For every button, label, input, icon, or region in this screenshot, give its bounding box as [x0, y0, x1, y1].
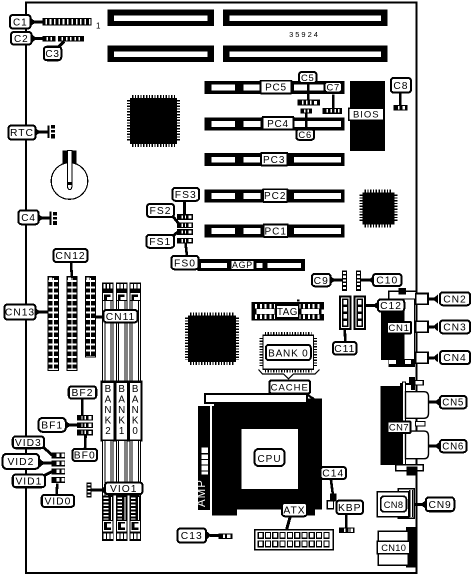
svg-text:N: N — [104, 405, 111, 416]
label VID1 — [13, 475, 45, 488]
wire C11 stem — [343, 330, 346, 343]
jumper block VID0-VID3 — [51, 452, 64, 483]
wire CN13 arrow — [35, 308, 41, 317]
label C7 — [325, 81, 342, 92]
component VIO1 header — [86, 482, 91, 497]
svg-text:VID3: VID3 — [15, 438, 42, 449]
svg-text:N: N — [132, 405, 139, 416]
chip U3 south bridge (QFP) — [186, 314, 237, 364]
svg-text:K: K — [105, 415, 112, 426]
PCI slot PC1 — [205, 225, 345, 238]
label CN13 — [5, 305, 36, 320]
svg-text:C6: C6 — [298, 129, 312, 140]
PCI slot PC4 — [205, 118, 345, 131]
wire C13 arrow — [206, 531, 212, 540]
connector CN7 block — [381, 377, 424, 471]
label VID0 — [42, 495, 74, 508]
label CN3 — [440, 320, 470, 333]
KBP fuse — [339, 528, 355, 534]
connector CN12 bar header strip — [67, 276, 78, 371]
label C14 — [321, 467, 347, 480]
svg-text:VID0: VID0 — [44, 497, 71, 508]
AGP slot — [198, 259, 306, 271]
svg-text:FS3: FS3 — [175, 190, 197, 201]
label PC1 — [264, 224, 289, 237]
BIOS chip — [349, 81, 385, 151]
svg-text:CN4: CN4 — [443, 353, 467, 364]
chip U2 (QFP) — [361, 191, 396, 226]
edge connector CN4 port — [416, 352, 428, 363]
PCI slot PC5 — [205, 81, 345, 94]
svg-text:C3: C3 — [45, 49, 59, 60]
svg-text:C9: C9 — [314, 276, 329, 287]
CN7 bottom bracket — [396, 465, 424, 476]
wire CN12 stem — [70, 262, 73, 277]
PCI slot PC3 — [205, 153, 345, 166]
header C10 bar — [356, 271, 361, 292]
label C3 — [44, 47, 62, 61]
svg-text:CACHE: CACHE — [271, 382, 309, 393]
svg-text:BF2: BF2 — [72, 388, 94, 399]
label C11 — [333, 342, 357, 355]
label FS1 — [147, 235, 175, 248]
wire C10 arrow — [369, 276, 375, 285]
svg-text:CN10: CN10 — [381, 543, 406, 553]
wire C9 arrow — [330, 276, 336, 285]
wire FS1 pointer — [172, 232, 179, 237]
label VID2 — [3, 454, 40, 469]
label BF0 — [73, 449, 98, 462]
label KBP — [337, 501, 364, 515]
label CN9 — [426, 498, 455, 512]
jumper block BF0-BF2 — [77, 415, 93, 436]
svg-text:35924: 35924 — [289, 30, 320, 39]
svg-text:A: A — [118, 394, 125, 405]
svg-text:CN12: CN12 — [55, 251, 85, 262]
svg-text:BANK 0: BANK 0 — [268, 349, 308, 360]
wire CN9 arrow — [421, 500, 427, 509]
svg-text:CN1: CN1 — [388, 323, 409, 334]
svg-text:TAG: TAG — [277, 307, 298, 318]
label VIO1 — [105, 483, 143, 496]
CPU socket — [214, 404, 322, 510]
wire FS0 stem — [186, 243, 188, 257]
svg-text:CN8: CN8 — [384, 500, 404, 510]
svg-text:CPU: CPU — [257, 454, 281, 465]
edge connector CN2 port — [416, 294, 428, 305]
jumper C7 bar — [323, 108, 343, 114]
connector CN13 bar header strip — [48, 276, 60, 371]
svg-text:CN13: CN13 — [5, 308, 35, 319]
brace under cache — [259, 370, 320, 379]
label PC3 — [261, 153, 288, 166]
header C9 bar — [342, 271, 347, 292]
label RTC — [9, 126, 36, 140]
wire VIO1 arrow — [100, 486, 106, 495]
SIMM socket BANK2 — [102, 283, 115, 541]
edge connector CN3 port — [416, 321, 428, 332]
label PC5 — [261, 81, 292, 94]
connector CN11 bar header strip — [85, 276, 96, 358]
label PC4 — [263, 117, 294, 130]
svg-text:CN9: CN9 — [429, 500, 452, 511]
label VID3 — [13, 437, 44, 450]
svg-text:1: 1 — [96, 22, 101, 31]
svg-text:BF0: BF0 — [74, 451, 96, 462]
svg-text:A: A — [132, 394, 139, 405]
wire C8 stem — [399, 93, 402, 106]
svg-text:PC4: PC4 — [267, 119, 289, 130]
wire RTC arrow — [35, 128, 41, 137]
svg-text:KBP: KBP — [338, 503, 362, 514]
TAG RAM socket — [252, 299, 324, 320]
capacitor C2 bars — [42, 36, 84, 42]
label CN11 — [104, 310, 138, 323]
label CN1 — [387, 322, 411, 334]
svg-text:K: K — [132, 415, 139, 426]
connector CN5 D-sub — [406, 392, 429, 419]
CPU label — [255, 449, 285, 466]
wire CN4 arrow — [433, 353, 439, 362]
connector CN6 D-sub — [406, 431, 429, 459]
svg-text:PC2: PC2 — [264, 191, 286, 202]
wire CN6 arrow — [435, 442, 441, 451]
svg-text:CN11: CN11 — [106, 312, 136, 323]
wire CACHE pointer — [306, 394, 316, 401]
ISA slot ISA2 — [108, 46, 388, 63]
label C5 — [299, 72, 317, 83]
jumper block FS0-FS3 — [177, 214, 193, 243]
label CN2 — [440, 292, 470, 305]
label BF2 — [69, 386, 97, 399]
wire C5 stem — [307, 84, 310, 100]
svg-text:ATX: ATX — [283, 505, 305, 516]
wire VID1 pointer — [42, 472, 52, 477]
svg-text:C14: C14 — [322, 469, 344, 480]
svg-text:C7: C7 — [326, 81, 340, 92]
connector CN8 — [377, 489, 414, 519]
AMP regulator bar — [196, 406, 214, 510]
connector CN1 DIN keyboard — [381, 288, 417, 367]
ATX power connector — [255, 530, 334, 550]
svg-text:CN7: CN7 — [389, 422, 409, 433]
svg-text:C8: C8 — [393, 81, 408, 92]
wire BF1 arrow — [66, 421, 72, 430]
wire CN2 arrow — [433, 295, 439, 304]
wire C6 stem — [305, 113, 308, 130]
capacitor C1 connector bar — [42, 18, 91, 26]
label FS2 — [147, 204, 174, 217]
label AGP — [231, 260, 255, 270]
socket feet — [212, 510, 237, 516]
svg-text:C1: C1 — [13, 17, 27, 28]
header block C11 block B — [354, 296, 367, 331]
svg-text:VID2: VID2 — [7, 457, 34, 468]
label PC2 — [263, 189, 288, 202]
label C13 — [178, 529, 207, 543]
RTC crystal — [48, 125, 56, 138]
svg-text:AMP: AMP — [196, 479, 208, 507]
svg-text:N: N — [118, 405, 125, 416]
label C9 — [312, 274, 331, 287]
wire BF2 stem — [81, 398, 84, 415]
wire C7 stem — [332, 95, 335, 109]
ISA slot ISA1 — [108, 10, 388, 27]
label ATX — [282, 503, 307, 517]
svg-text:1: 1 — [119, 426, 124, 437]
label CN12 — [54, 249, 88, 262]
wire ATX stem — [287, 516, 291, 531]
svg-text:AGP: AGP — [232, 260, 253, 270]
label CACHE — [270, 381, 311, 394]
svg-text:2: 2 — [105, 426, 110, 437]
label C12 — [378, 300, 405, 313]
wire CN5 arrow — [435, 398, 441, 407]
svg-text:CN6: CN6 — [442, 442, 464, 453]
wire VID0 stem — [55, 484, 58, 496]
wire CN3 arrow — [433, 322, 439, 331]
svg-text:PC3: PC3 — [263, 155, 285, 166]
wire C2 arrow — [32, 34, 38, 43]
wire CN11 arrow — [103, 313, 109, 322]
jumper C8 bar — [394, 105, 408, 111]
label BF1 — [39, 418, 66, 432]
label C4 — [19, 210, 39, 224]
capacitor C4 — [50, 212, 58, 226]
label C8 — [391, 78, 411, 93]
svg-text:CN3: CN3 — [443, 323, 467, 334]
cache chip BANK 0 — [261, 334, 315, 372]
label C10 — [373, 274, 402, 287]
svg-text:A: A — [105, 394, 112, 405]
jumper C6 bar — [301, 108, 313, 113]
label CN6 — [440, 440, 467, 453]
svg-text:FS1: FS1 — [149, 237, 171, 248]
svg-text:0: 0 — [132, 426, 138, 437]
svg-text:PC5: PC5 — [265, 83, 287, 94]
svg-text:CN2: CN2 — [443, 295, 467, 306]
wire BF0 stem — [84, 435, 87, 449]
label C1 — [10, 15, 31, 29]
svg-text:VID1: VID1 — [15, 477, 42, 488]
wire C3 stem — [57, 42, 65, 50]
svg-text:BF1: BF1 — [41, 421, 63, 432]
svg-text:K: K — [118, 415, 125, 426]
wire FS2 pointer — [172, 215, 179, 224]
label FS3 — [173, 188, 200, 201]
svg-text:B: B — [118, 384, 125, 395]
label CN4 — [440, 351, 470, 364]
battery BT1 — [51, 151, 88, 200]
wire C12 arrow — [373, 301, 379, 310]
svg-text:FS0: FS0 — [174, 258, 196, 269]
label C6 — [296, 129, 314, 140]
svg-text:C11: C11 — [334, 344, 355, 355]
wire VID2 arrow — [40, 459, 46, 468]
wire VID3 pointer — [42, 446, 52, 455]
wire C4 arrow — [38, 214, 44, 223]
svg-text:C13: C13 — [181, 531, 203, 542]
CPU socket lever bar — [205, 394, 307, 403]
label C2 — [11, 32, 32, 45]
connector CN10 — [377, 527, 416, 567]
SIMM socket BANK1 — [115, 283, 128, 541]
svg-text:CN5: CN5 — [442, 398, 464, 409]
heatsink step — [308, 399, 322, 405]
chip U1 north bridge (QFP) — [128, 96, 178, 145]
svg-text:C12: C12 — [380, 301, 402, 312]
svg-text:BIOS: BIOS — [353, 110, 380, 121]
wire FS3 stem — [183, 201, 186, 215]
svg-text:B: B — [132, 384, 139, 395]
svg-text:C10: C10 — [376, 276, 398, 287]
header block C11 block A — [339, 296, 352, 331]
jumper C5 bar — [298, 100, 321, 106]
wire C1 arrow — [31, 18, 37, 27]
label FS0 — [172, 256, 199, 269]
label CN5 — [440, 396, 467, 409]
label CN7 — [388, 422, 411, 434]
svg-text:C4: C4 — [21, 213, 35, 224]
wire C14 stem — [331, 479, 333, 495]
svg-text:FS2: FS2 — [150, 206, 172, 217]
svg-text:RTC: RTC — [10, 128, 34, 139]
wire KBP stem — [345, 514, 348, 529]
capacitor C14 — [327, 494, 336, 509]
mid tab — [416, 422, 426, 427]
svg-text:C2: C2 — [14, 34, 28, 45]
svg-text:PC1: PC1 — [265, 226, 287, 237]
SIMM socket BANK0 socket — [129, 283, 142, 541]
svg-text:B: B — [105, 384, 112, 395]
svg-text:C5: C5 — [301, 72, 315, 83]
svg-text:VIO1: VIO1 — [110, 484, 137, 495]
capacitor C13 — [219, 534, 233, 540]
PCI slot PC2 — [205, 190, 345, 203]
